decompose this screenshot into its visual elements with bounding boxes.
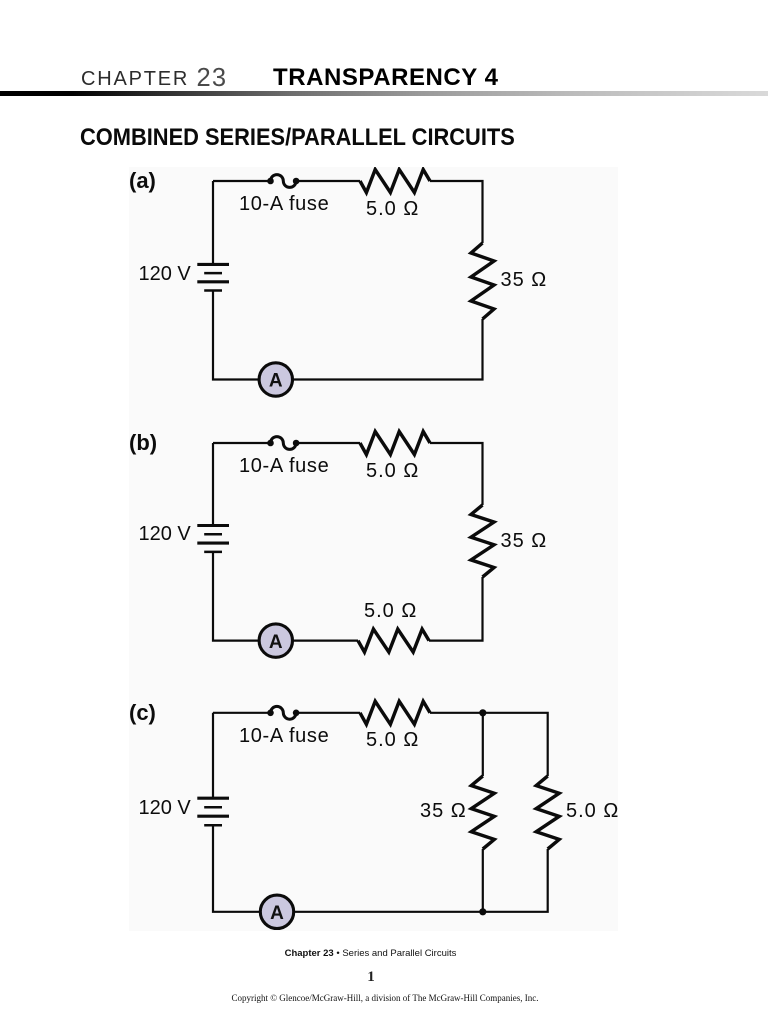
svg-text:A: A [269, 632, 283, 653]
svg-text:A: A [269, 371, 283, 392]
svg-text:A: A [270, 903, 284, 924]
